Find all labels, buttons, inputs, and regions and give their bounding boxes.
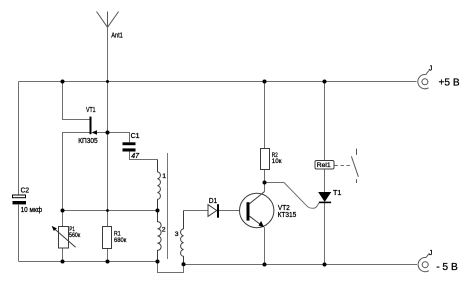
wire P1 bottom [62,248,64,262]
wire mid rail [63,210,158,212]
node VT1 drain / top rail [61,80,65,84]
svg-text:T1: T1 [333,188,341,197]
node T1 bottom [323,263,327,267]
wire Rel1 top [324,82,326,161]
wire Rel1 to T1 [324,169,326,192]
wire VT2 collector riser [264,183,266,192]
svg-text:C2: C2 [21,186,29,195]
svg-text:3: 3 [175,231,179,238]
relay coil Rel1 [315,161,334,170]
svg-text:C1: C1 [131,131,140,140]
transistor VT1 KP305 [90,117,98,135]
transformer coil 1 [158,160,161,211]
svg-text:47: 47 [131,151,140,160]
node mid rail left [61,209,65,213]
transformer coil 3 [181,211,184,265]
wire T1 gate [265,183,319,209]
potentiometer P1 [52,226,76,248]
svg-text:D1: D1 [209,196,217,205]
wire R1 bottom [107,249,109,262]
svg-text:J: J [429,250,433,257]
svg-text:VT1: VT1 [86,105,96,114]
node emitter bottom [263,263,267,267]
svg-text:2: 2 [162,226,166,233]
connector J -5V [418,254,429,272]
svg-text:Rel1: Rel1 [317,162,331,169]
node P1 bottom [61,260,65,264]
node Rel1 / top rail [323,80,327,84]
wire R2 bottom [264,170,266,183]
node R2 / top rail [263,80,267,84]
antenna Ant1 [97,12,119,28]
transformer coil 2 [158,211,162,262]
transistor VT2 KT315 [240,192,274,228]
svg-text:Ant1: Ant1 [111,31,123,40]
wire P1 top [62,211,64,227]
relay dashed link [335,165,353,167]
wire bottom left rail [19,261,158,263]
node antenna / top rail [106,80,109,83]
wire C2 bottom to bottom rail [18,205,20,262]
svg-text:КТ315: КТ315 [278,210,297,219]
svg-text:560к: 560к [69,232,80,239]
wire VT1 source down to mid rail [63,133,90,211]
wire D1 to VT2 [219,210,240,212]
transformer core [167,153,169,259]
svg-text:1: 1 [162,173,166,180]
resistor R2 [261,149,270,170]
svg-text:J: J [429,65,433,72]
wire VT1 drain to top rail [63,82,90,120]
wire antenna mast down to R1 [107,27,109,226]
svg-text:КП305: КП305 [78,136,98,145]
wire coil3 top to D1 [184,210,209,212]
wire transformer bottom U [158,262,184,273]
node R2 bottom junction [263,181,267,185]
wire bottom right rail [184,264,418,266]
svg-text:- 5 В: - 5 В [436,261,458,273]
wire T1 to bottom rail [324,203,326,265]
thyristor T1 [319,192,331,203]
wire C1 to coil 1 [130,151,158,159]
svg-text:10к: 10к [272,158,282,165]
wire VT1 gate [97,132,108,134]
wire gate junction to C1 [108,133,130,143]
node coil2 bottom [156,260,160,264]
node coil3 bottom [182,262,186,266]
node gate junction [106,131,110,135]
connector J +5V [418,71,429,89]
svg-text:680к: 680к [114,237,126,244]
capacitor C1 [123,142,136,151]
svg-text:+5 В: +5 В [439,77,460,89]
node mid rail antenna [106,209,109,212]
wire R2 top [264,82,266,149]
node coil 1-2 junction [156,209,160,213]
node R1 bottom [106,260,110,264]
wire left vertical to C2 [18,82,20,196]
diode D1 [208,204,219,218]
relay contact switch [351,149,358,183]
resistor R1 [103,227,112,249]
wire top rail [19,81,417,83]
svg-text:10 мкф: 10 мкф [21,205,43,214]
capacitor C2 [13,195,27,204]
wire VT2 emitter down [264,227,266,264]
